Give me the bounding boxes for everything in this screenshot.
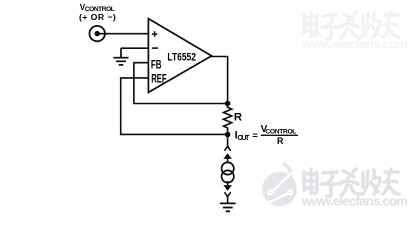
node output junction — [225, 101, 231, 107]
svg-text:www.elecfans.com: www.elecfans.com — [301, 193, 408, 208]
svg-text:(+ OR −): (+ OR −) — [79, 12, 116, 22]
op-amp U1 LT6552 — [148, 19, 211, 93]
svg-text:R: R — [277, 136, 284, 146]
ground GND2 — [220, 203, 236, 211]
node IOUT junction — [225, 132, 231, 138]
label IOUT equation — [235, 124, 298, 146]
wire REF — [121, 78, 228, 134]
svg-text:LT6552: LT6552 — [167, 52, 196, 64]
ground GND1 — [114, 48, 129, 65]
current source I1 — [222, 153, 234, 191]
resistor R — [224, 104, 232, 135]
svg-text:CONTROL: CONTROL — [265, 128, 296, 135]
svg-text:=: = — [252, 129, 258, 140]
svg-text:FB: FB — [151, 57, 162, 71]
label VCONTROL (+ OR -) — [79, 3, 116, 22]
svg-text:R: R — [234, 112, 242, 124]
wire output — [211, 57, 228, 104]
wire + input — [99, 33, 148, 35]
wire IOUT arrow (open chevron up) — [225, 135, 231, 151]
svg-text:www.elecfans.com: www.elecfans.com — [301, 37, 408, 52]
wire - input — [121, 47, 148, 49]
input connector J1 VCONTROL — [90, 26, 105, 41]
svg-text:REF: REF — [151, 72, 166, 86]
wire FB feedback — [134, 63, 228, 104]
svg-text:OUT: OUT — [237, 134, 250, 142]
wire to ground (open chevron down) — [225, 192, 231, 202]
